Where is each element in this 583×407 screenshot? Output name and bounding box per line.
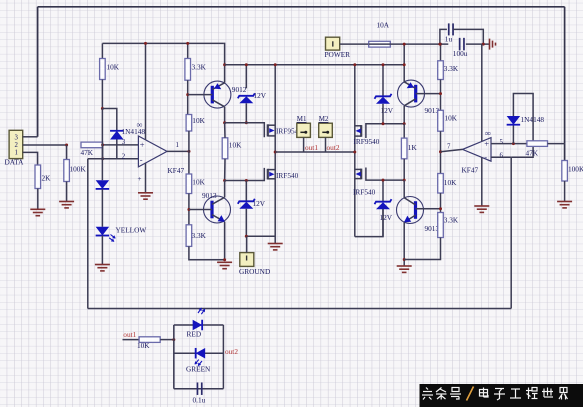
svg-text:M1: M1 (297, 115, 307, 123)
wire bottom feedback bus (88, 308, 511, 310)
diode D 1N4148 left (cathode up) (110, 131, 124, 140)
svg-text:10A: 10A (377, 20, 390, 29)
wire LED box right edge (222, 325, 224, 389)
transistor Q1 9012 circle (204, 81, 231, 108)
resistor R 10K lower-right body (438, 174, 444, 194)
junction right gate lead at zener column (382, 122, 385, 125)
wire right bridge bottom to zener column (355, 209, 383, 237)
connector J1 DATA box (9, 130, 23, 158)
connector GROUND pin glyph (246, 256, 248, 261)
transistor Q4 circle (397, 197, 424, 224)
wire 10K to output node (188, 131, 190, 174)
wire zener anode down to gate lead (245, 103, 247, 123)
wire LED box left edge (173, 325, 175, 389)
wire +12V rail (225, 64, 405, 66)
junction gate lead at zener column (245, 121, 248, 124)
svg-text:10K: 10K (192, 177, 205, 186)
wire fuse to power node / caps line (390, 43, 448, 45)
resistor R 3.3K top-right body (438, 61, 444, 80)
wire gate node to 10K middle (224, 123, 226, 138)
svg-text:2: 2 (122, 153, 126, 160)
junction lower gate node (223, 179, 226, 182)
wire 10K to LED box (160, 339, 174, 341)
wire DATA pin3 stub to riser (23, 136, 38, 138)
wire gate node to 1K (403, 124, 405, 138)
svg-text:GREEN: GREEN (186, 365, 211, 374)
svg-text:out1: out1 (305, 143, 318, 152)
wire lower gate lead (225, 168, 265, 181)
svg-text:10K: 10K (445, 113, 458, 122)
resistor R 47K right body (527, 141, 548, 147)
resistor R 10K lower-left body (186, 174, 192, 194)
svg-text:9012: 9012 (232, 85, 247, 94)
junction Q2 base node (187, 208, 190, 211)
junction LED box left (172, 338, 175, 341)
wire outer loop: top frame (38, 6, 565, 8)
wire Q4 base lead (416, 208, 441, 210)
resistor R 10K upper-right body (438, 110, 444, 131)
svg-text:0.1u: 0.1u (193, 396, 206, 405)
svg-text:∞: ∞ (137, 120, 143, 130)
svg-text:3.3K: 3.3K (444, 64, 459, 73)
wire U2 -input to feedback column (491, 156, 511, 158)
mosfet M IRF9540 right arrow (356, 129, 361, 134)
wire corner down to 10K top-left (101, 43, 103, 58)
junction U1 output at column A (188, 150, 191, 153)
svg-text:10K: 10K (107, 63, 120, 72)
wire right bridge main line (354, 65, 356, 237)
transistor Q4 emitter arrow (404, 216, 411, 223)
wire M2 to out wire (325, 137, 327, 152)
wire top distribution line y=43.4 (102, 42, 223, 44)
op-amp U1 triangle (138, 136, 167, 167)
svg-text:+: + (140, 139, 145, 149)
wire elbow right to diode column (102, 109, 116, 131)
wire 10K to U2 output node (440, 131, 442, 173)
junction fuse line at Q3 column (403, 43, 406, 46)
capacitor C 0.1u plates (197, 382, 201, 395)
svg-text:IRF540: IRF540 (353, 187, 376, 196)
zener D 12V top-right (375, 94, 392, 104)
ground right-facing at caps (490, 39, 496, 50)
LED RED (on top row, pointing right) (193, 320, 203, 331)
junction cap1 rejoin / U2 V+ riser (482, 43, 485, 46)
mosfet M IRF9540 left channel bar (267, 124, 269, 136)
zener D 12V bottom-right (375, 199, 392, 209)
wire out1 stub (123, 339, 140, 341)
junction Q1 base node (186, 93, 189, 96)
transistor Q1 emitter arrow (214, 83, 221, 89)
wire upper gate lead (225, 123, 265, 138)
junction Q1 collector gate node (223, 121, 226, 124)
mosfet M IRF9540 right channel bar (360, 125, 362, 137)
junction 10K-bottom elbow (101, 107, 104, 110)
svg-text:3.3K: 3.3K (444, 215, 459, 224)
banner text strokes (422, 388, 568, 401)
wire cap1 bypass loop (440, 29, 447, 44)
wire LED box middle row (174, 352, 224, 354)
wire power line to 3.3K top-right (440, 44, 442, 61)
wire LED box bottom row (174, 388, 224, 390)
junction ground line at GROUND tap (245, 235, 248, 238)
connector GROUND box (240, 253, 254, 267)
wire: right column 47K node to 100K top (564, 144, 566, 161)
mosfet M IRF9540 left bottom stub (268, 135, 275, 137)
wire cap1 to rejoin (453, 29, 483, 44)
svg-text:47K: 47K (81, 148, 94, 157)
svg-text:KF47: KF47 (462, 166, 479, 175)
wire POWER drop / Q3 emitter column (403, 44, 405, 82)
connector M1 pin glyph (300, 131, 307, 134)
junction 47K right / divider column (101, 143, 104, 146)
op-amp U2 triangle (463, 138, 492, 162)
junction rail at POWER drop (403, 63, 406, 66)
transistor Q3 circle (398, 80, 425, 107)
wire U2 V+ riser (481, 44, 483, 141)
svg-text:1: 1 (176, 142, 179, 149)
wire 3.3K bottom corner to emitter ground (189, 246, 225, 259)
junction lower zener column node (245, 179, 248, 182)
transistor Q3 base bar (414, 85, 417, 103)
transistor Q4 collector diagonal (404, 198, 415, 205)
wire right upper gate lead (366, 124, 404, 138)
junction +12V rail at Q1 column (223, 63, 226, 66)
wire Q2 emitter down to ground node (224, 222, 226, 260)
wire 1N4148 top loop over (511, 94, 533, 158)
mosfet M IRF9540 left top stub (268, 124, 275, 126)
svg-text:+: + (138, 175, 142, 183)
capacitor C 1u plates (449, 23, 453, 35)
svg-text:12V: 12V (253, 199, 266, 208)
transistor Q2 collector diagonal (212, 197, 225, 204)
wire: right 100K bottom to ground (564, 181, 566, 201)
transistor Q4 base bar (414, 201, 417, 219)
wire lower zener anode to ground line (246, 209, 275, 237)
LED YELLOW arrows (107, 233, 117, 243)
banner black bar (420, 384, 583, 407)
ground below Q2 emitter (217, 262, 232, 268)
junction Q4 base node (439, 207, 442, 210)
transistor Q3 emitter arrow (407, 82, 414, 88)
svg-text:10K: 10K (444, 178, 457, 187)
connector M2 pin glyph (322, 131, 329, 134)
transistor Q1 collector diagonal (212, 100, 224, 107)
resistor R 3.3K top-left body (185, 59, 191, 81)
wire 10K to Q2 base node (188, 194, 190, 225)
wire M1 to out wire (303, 137, 305, 152)
svg-text:GROUND: GROUND (239, 267, 270, 276)
resistor R 10K upper-left body (186, 115, 192, 132)
svg-text:out1: out1 (123, 330, 136, 339)
wire DATA pin2 to 47K node (23, 144, 67, 146)
wire U2 +input (491, 143, 527, 145)
svg-text:out2: out2 (225, 347, 238, 356)
banner slash (orange) (467, 387, 474, 401)
ground below YELLOW led (95, 265, 110, 271)
svg-text:-: - (484, 152, 487, 162)
svg-text:9013: 9013 (202, 191, 217, 200)
junction rail at left bridge (274, 63, 277, 66)
LED YELLOW (cathode down) (96, 227, 110, 236)
svg-text:1u: 1u (445, 34, 453, 43)
wire 3.3K to base node (187, 80, 189, 114)
junction right bridge output node (353, 151, 356, 154)
svg-text:RED: RED (187, 329, 202, 338)
wire outer loop: right side down to 47K node (564, 7, 566, 144)
wire 47K right to outer loop (548, 143, 565, 145)
junction power line at right column (439, 43, 442, 46)
transistor Q1 emitter diagonal (212, 83, 224, 90)
transistor Q2 9013 circle (204, 196, 231, 223)
wire corner top line down to 3.3K (187, 43, 189, 58)
connector POWER pin glyph (332, 41, 334, 46)
capacitor C 100u plates (460, 38, 464, 51)
wire zener column from rail (245, 65, 247, 89)
svg-text:3.3K: 3.3K (192, 63, 207, 72)
mosfet M IRF9540 right bottom stub (355, 135, 361, 137)
wire yellow LED to ground (101, 236, 103, 265)
wire Q4 collector up to lower gate node (403, 180, 405, 198)
svg-text:100K: 100K (568, 165, 583, 174)
wire U2 V- down to ground (481, 157, 483, 205)
mosfet M IRF9540 left arrow (269, 128, 274, 133)
transistor Q3 emitter diagonal (404, 82, 416, 89)
wire right lower gate lead (366, 168, 404, 181)
wire U1 V- down to ground (145, 163, 147, 192)
svg-text:M2: M2 (319, 115, 329, 123)
wire top line corner down to Q1 emitter (223, 43, 226, 82)
svg-text:IRF9540: IRF9540 (354, 137, 380, 146)
connector POWER box (326, 37, 340, 50)
junction right lower gate node (403, 179, 406, 182)
svg-text:3: 3 (15, 134, 19, 141)
resistor R 1K body (401, 138, 407, 159)
junction top line at 3.3K column (186, 42, 189, 45)
wire right lower zener column (382, 180, 384, 202)
ground below left bridge (268, 244, 283, 250)
LED RED arrows (197, 306, 207, 316)
wire LED box top row (174, 324, 224, 326)
wire output node to right bridge (275, 151, 355, 153)
wire Q2 collector up to lower gate node (224, 181, 226, 198)
mosfet M IRF540 left arrow (269, 172, 274, 177)
wire 100K bottom to ground (66, 182, 68, 202)
wire Q3 base lead (416, 93, 441, 95)
ground below 100K (59, 202, 74, 208)
mosfet M IRF540 right arrow (356, 172, 361, 177)
svg-text:+: + (484, 138, 489, 148)
svg-text:12V: 12V (254, 91, 267, 100)
junction Q2 emitter ground node (223, 258, 226, 261)
diode D (cathode down) on chain (96, 180, 110, 189)
wire right feedback column up to op2 pin6 (510, 157, 512, 308)
svg-text:POWER: POWER (325, 50, 351, 59)
mosfet M IRF540 left bottom stub (268, 178, 275, 180)
wire Q2 base lead (189, 209, 212, 211)
wire divider column down to diode chain (101, 109, 103, 181)
wire right zener anode to gate lead (382, 104, 384, 124)
wire 1K to lower gate node (403, 159, 405, 180)
wire Q3 collector down to gate node (403, 106, 405, 124)
junction Q3 collector gate node (403, 122, 406, 125)
wire U1 V+ riser (145, 43, 147, 139)
svg-text:10K: 10K (192, 116, 205, 125)
wire 47K to op-amp + input (103, 144, 139, 146)
junction inverting wire / diode chain column (101, 157, 104, 160)
svg-text:KF47: KF47 (168, 166, 185, 175)
transistor Q2 emitter arrow (218, 215, 225, 222)
svg-text:2K: 2K (42, 174, 52, 183)
wire 3.3K to Q3 base node (440, 80, 442, 111)
junction Q4 emitter ground node (403, 258, 406, 261)
svg-text:∞: ∞ (485, 128, 491, 138)
wire right top zener column from rail (382, 65, 384, 97)
junction left bridge output node (274, 151, 277, 154)
svg-text:2: 2 (15, 142, 19, 149)
svg-text:7: 7 (447, 144, 451, 151)
svg-text:100K: 100K (70, 165, 87, 174)
wire 1N4148 right loop (512, 124, 514, 143)
junction at 100K top / pin2 wire (65, 144, 68, 147)
resistor R 2K body (35, 165, 41, 189)
wire outer loop: DATA pin3 riser up left side (37, 7, 39, 137)
ground below Q4 (397, 266, 412, 272)
ground below right 100K (557, 202, 572, 208)
svg-text:1: 1 (15, 150, 18, 157)
junction rail at zener column (245, 63, 248, 66)
mosfet M IRF540 right bottom stub (355, 178, 361, 180)
mosfet M IRF540 left top stub (268, 169, 275, 171)
svg-text:10K: 10K (229, 141, 242, 150)
wire lower zener column (245, 181, 247, 202)
fuse F 10A body (369, 41, 391, 47)
svg-text:YELLOW: YELLOW (116, 226, 147, 235)
junction Q3 base node (439, 92, 442, 95)
svg-text:1K: 1K (408, 143, 418, 152)
svg-text:12V: 12V (380, 213, 393, 222)
mosfet M IRF9540 right top stub (355, 125, 361, 127)
wire Q1 collector down to gate node (224, 107, 226, 123)
wire DATA pin1 right then down to 2K (23, 152, 38, 165)
resistor R 47K left body (81, 142, 103, 148)
wire 10K middle to lower gate node (224, 159, 226, 181)
resistor R 3.3K lower-right body (438, 213, 444, 238)
mosfet M IRF540 left channel bar (267, 169, 269, 180)
svg-text:5: 5 (500, 139, 504, 146)
wire U1 output to divider column (167, 150, 189, 152)
wire 3.3K bottom corner to Q4 ground node (404, 238, 440, 260)
wire 2K bottom to ground (37, 189, 39, 209)
mosfet M IRF540 right channel bar (360, 169, 362, 180)
ground below U1 (138, 193, 153, 199)
resistor R100K right body (562, 161, 568, 182)
transistor Q3 collector diagonal (404, 99, 416, 106)
wire Q1 base lead (188, 94, 213, 96)
transistor Q1 base bar (211, 86, 214, 104)
LED GREEN (on middle row, pointing left) (196, 348, 206, 359)
wire GROUND box stem (246, 236, 248, 252)
resistor R 10K top-left body (100, 59, 106, 80)
ground below 2K (30, 209, 45, 215)
wire 10K bottom down to elbow (101, 80, 103, 109)
wire U2 output left to right column (441, 149, 463, 151)
svg-text:3.3K: 3.3K (192, 231, 207, 240)
junction rail at right zener column (382, 63, 385, 66)
junction V+ riser on top line (144, 42, 147, 45)
svg-text:-: - (140, 154, 143, 164)
mosfet M IRF540 right top stub (355, 168, 361, 170)
wire 10K to Q4 base node (440, 193, 442, 213)
junction U2 output at right column (439, 150, 442, 153)
junction U2 +input at 1N4148 column (512, 142, 515, 145)
transistor Q2 base bar (210, 201, 213, 219)
junction right lower gate node at zener column (382, 179, 385, 182)
svg-text:6: 6 (500, 153, 504, 160)
ground below U2 (474, 206, 489, 212)
wire left bridge main line (274, 65, 276, 243)
resistor R 100K left body (64, 160, 70, 182)
svg-text:10K: 10K (137, 341, 150, 350)
transistor Q2 emitter diagonal (212, 215, 225, 222)
transistor Q4 emitter diagonal (404, 215, 415, 222)
wire feedback column down to bottom bus (87, 159, 89, 309)
svg-text:47K: 47K (526, 149, 539, 158)
resistor R 10K middle body (222, 138, 228, 159)
connector M1 box (297, 123, 311, 137)
svg-text:DATA: DATA (5, 158, 25, 167)
wire 1N4148 anode down to inverting wire (116, 140, 118, 159)
svg-text:IRF540: IRF540 (276, 171, 299, 180)
junction rail at right bridge (353, 63, 356, 66)
zener D 12V bottom-left (238, 199, 255, 209)
wire caps line to ground (466, 43, 490, 45)
wire POWER to fuse (340, 43, 369, 45)
resistor R 10K bottom body (139, 337, 160, 343)
wire divider column down to inverting wire (102, 145, 104, 159)
wire Q4 emitter down to ground node (403, 222, 405, 265)
connector M2 box (319, 123, 333, 137)
LED GREEN arrows (193, 358, 203, 368)
wire inverting input (88, 158, 139, 160)
resistor R 3.3K lower-left body (186, 225, 192, 247)
svg-text:100u: 100u (453, 49, 468, 58)
diode D 1N4148 right (cathode down) (507, 116, 521, 125)
junction caps node (438, 43, 441, 46)
wire right lower zener anode stub (382, 209, 384, 236)
wire chain to yellow LED (101, 189, 103, 227)
wire 100K top (66, 145, 68, 160)
zener D 12V top-left (238, 93, 255, 103)
svg-text:out2: out2 (327, 143, 340, 152)
svg-text:3: 3 (122, 139, 126, 146)
